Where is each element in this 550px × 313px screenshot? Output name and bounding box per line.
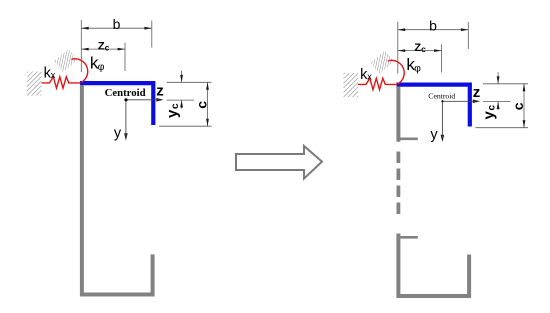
svg-text:Centroid: Centroid xyxy=(428,91,455,100)
svg-text:Centroid: Centroid xyxy=(105,87,146,99)
